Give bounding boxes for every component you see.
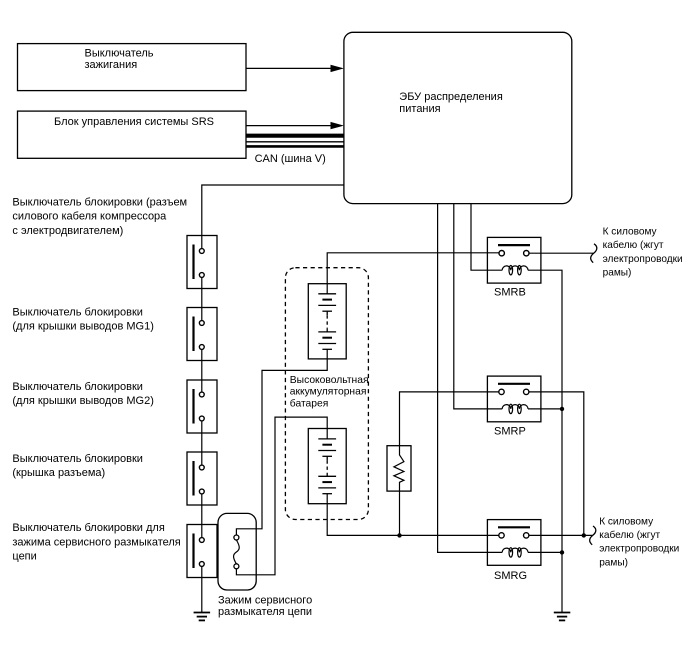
wire: S1 bottom to S2 top	[201, 275, 203, 323]
svg-text:Блок управления системы SRS: Блок управления системы SRS	[54, 116, 214, 128]
svg-text:Выключатель блокировки (разъем: Выключатель блокировки (разъем	[12, 196, 187, 208]
label: interlock switch S1 (compressor cable connector)	[12, 196, 187, 237]
svg-text:с электродвигателем): с электродвигателем)	[12, 225, 123, 237]
svg-text:CAN (шина V): CAN (шина V)	[255, 153, 326, 165]
label: interlock switch S4 (connector cover)	[12, 453, 143, 479]
wire: SMRG coil to ground rail	[528, 551, 562, 553]
label: CAN (шина V)	[255, 153, 326, 165]
wire: battery B1 negative to service plug top contact	[236, 349, 327, 537]
block: Блок управления системы SRS (SRS control unit)	[18, 111, 247, 158]
block: Выключатель зажигания (ignition switch)	[18, 44, 247, 91]
wire: S3 bottom to S4 top	[201, 419, 203, 468]
junction: SMRP coil on ground rail	[560, 407, 564, 411]
battery B2 (lower stack of high-voltage battery)	[308, 429, 346, 504]
svg-text:питания: питания	[399, 103, 440, 115]
svg-text:электропроводки: электропроводки	[603, 254, 683, 265]
switch S3 (interlock, MG2 cover)	[187, 380, 217, 433]
switch S4 (interlock, connector cover)	[187, 452, 217, 505]
svg-text:Выключатель блокировки: Выключатель блокировки	[12, 307, 143, 319]
wire: battery B1 positive to SMRB contact	[327, 253, 502, 294]
svg-text:батарея: батарея	[290, 397, 329, 409]
wire: SMRB contact output to frame harness	[526, 252, 593, 254]
svg-text:рамы): рамы)	[599, 557, 628, 568]
service plug grip: Зажим сервисного размыкателя цепи	[218, 513, 256, 590]
connector symbol: to frame wiring harness (lower)	[590, 526, 596, 545]
svg-text:электропроводки: электропроводки	[599, 544, 679, 555]
svg-text:кабелю (жгут: кабелю (жгут	[599, 529, 660, 541]
wire: battery B2 positive to service plug bottom contact	[236, 417, 327, 575]
wire: S2 bottom to S3 top	[201, 347, 203, 395]
svg-text:зажима сервисного размыкателя: зажима сервисного размыкателя	[12, 536, 180, 548]
junction: resistor bottom on negative rail	[397, 533, 401, 537]
wire: S4 bottom to S5 top	[201, 492, 203, 541]
battery B1 (upper stack of high-voltage battery)	[308, 284, 346, 359]
label: К силовому кабелю (жгут электропроводки рамы) upper	[603, 226, 683, 278]
svg-text:силового кабеля компрессора: силового кабеля компрессора	[12, 211, 167, 223]
wire: S5 bottom to ground	[201, 564, 203, 613]
svg-text:Выключатель: Выключатель	[85, 48, 154, 60]
wire: relay coil common ground rail	[528, 270, 562, 612]
junction: SMRP/SMRG contact outputs joined	[582, 533, 586, 537]
svg-text:SMRP: SMRP	[494, 425, 526, 437]
wire: SRS unit output arrow to ECU	[246, 122, 344, 129]
label: interlock switch S2 (MG1 terminal cover)	[12, 307, 153, 333]
battery pack: dashed enclosure (Высоковольтная аккумуляторная батарея)	[285, 268, 368, 520]
label: Зажим сервисного размыкателя цепи	[218, 595, 312, 619]
wire: ECU output to SMRB coil	[471, 203, 502, 270]
svg-text:цепи: цепи	[12, 551, 36, 563]
svg-text:(для крышки выводов MG2): (для крышки выводов MG2)	[12, 395, 153, 407]
wire: ignition switch output arrow to ECU	[246, 65, 344, 72]
svg-text:(крышка разъема): (крышка разъема)	[12, 467, 105, 479]
label: К силовому кабелю (жгут электропроводки рамы) lower	[599, 516, 679, 568]
svg-text:(для крышки выводов MG1): (для крышки выводов MG1)	[12, 320, 153, 332]
junction: SMRG coil on ground rail	[560, 550, 564, 554]
wire: ECU output to SMRP coil	[454, 203, 502, 409]
ground: below interlock switch chain	[194, 613, 211, 621]
relay SMRG (system main relay G)	[487, 520, 541, 582]
connector symbol: to frame wiring harness (upper)	[591, 244, 597, 263]
svg-text:К силовому: К силовому	[599, 516, 654, 527]
svg-text:Выключатель блокировки: Выключатель блокировки	[12, 453, 143, 465]
svg-text:Выключатель блокировки для: Выключатель блокировки для	[12, 522, 164, 534]
ground: relay coil rail ground	[554, 613, 571, 621]
svg-text:кабелю (жгут: кабелю (жгут	[603, 239, 664, 251]
switch S5 (interlock, service plug grip clamp)	[187, 525, 217, 578]
resistor R1 (precharge/discharge resistor)	[387, 446, 411, 491]
svg-text:SMRG: SMRG	[494, 570, 527, 582]
svg-text:размыкателя цепи: размыкателя цепи	[218, 606, 312, 618]
block U1: ЭБУ распределения питания (power distribution ECU)	[344, 32, 572, 203]
label: interlock switch S5 (service plug grip)	[12, 522, 180, 563]
switch S2 (interlock, MG1 cover)	[187, 308, 217, 361]
wire: SMRP contact output down to frame harness node	[526, 392, 584, 536]
wire: resistor R1 top to SMRP contact	[400, 392, 502, 446]
wire: SMRG contact output to frame harness	[526, 534, 592, 536]
svg-text:Зажим сервисного: Зажим сервисного	[218, 595, 312, 607]
svg-text:Высоковольтная: Высоковольтная	[290, 375, 369, 386]
svg-text:ЭБУ распределения: ЭБУ распределения	[399, 91, 503, 103]
svg-text:зажигания: зажигания	[85, 59, 138, 71]
wire: battery B2 negative to SMRG contact	[327, 494, 501, 536]
wire: ECU output to SMRG coil	[438, 203, 503, 552]
wire: interlock chain top to ECU left edge	[202, 185, 344, 251]
wire: SMRP coil to ground rail	[528, 408, 562, 410]
svg-text:К силовому: К силовому	[603, 226, 658, 237]
svg-text:SMRB: SMRB	[494, 286, 526, 298]
svg-text:Выключатель блокировки: Выключатель блокировки	[12, 381, 143, 393]
relay SMRP (system main relay P)	[487, 376, 541, 437]
bus: CAN (шина V) four-line bus	[246, 136, 344, 147]
switch S1 (interlock, compressor cable connector)	[187, 236, 217, 289]
svg-text:рамы): рамы)	[603, 268, 632, 279]
label: interlock switch S3 (MG2 terminal cover)	[12, 381, 153, 407]
relay SMRB (system main relay B)	[487, 237, 541, 298]
wire: resistor R1 bottom to battery negative rail	[399, 491, 401, 535]
svg-text:аккумуляторная: аккумуляторная	[290, 387, 367, 398]
